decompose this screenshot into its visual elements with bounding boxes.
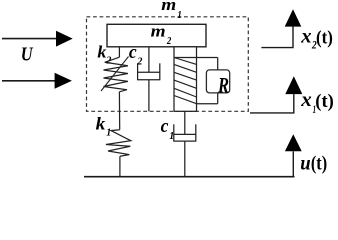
svg-text:U: U [21, 43, 34, 65]
svg-text:c: c [129, 42, 137, 63]
svg-text:1: 1 [177, 9, 181, 21]
svg-text:1: 1 [106, 128, 111, 139]
svg-text:x: x [300, 24, 311, 48]
svg-text:2: 2 [136, 57, 142, 68]
svg-text:x: x [300, 87, 312, 111]
svg-text:u: u [300, 150, 310, 174]
svg-text:(t): (t) [316, 28, 333, 48]
svg-text:2: 2 [105, 56, 111, 67]
svg-text:2: 2 [166, 35, 172, 47]
svg-text:k: k [96, 113, 106, 133]
svg-text:(t): (t) [311, 154, 327, 175]
svg-text:R: R [217, 73, 229, 98]
svg-text:m: m [161, 0, 176, 14]
svg-text:m: m [151, 22, 166, 41]
svg-text:c: c [161, 116, 169, 137]
svg-text:1: 1 [169, 131, 174, 142]
svg-text:(t): (t) [315, 92, 334, 112]
